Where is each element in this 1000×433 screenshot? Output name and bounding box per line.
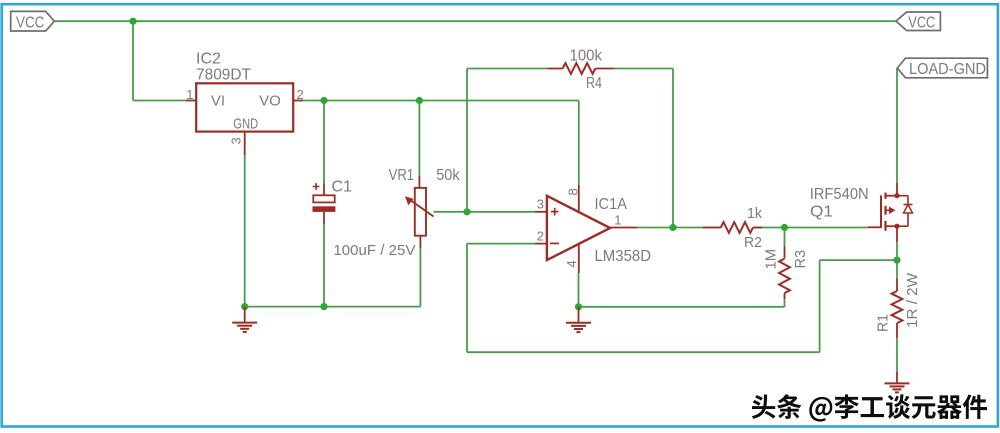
svg-text:LOAD-GND: LOAD-GND bbox=[909, 61, 986, 78]
supply flag VCC right bbox=[896, 12, 940, 31]
wire VR1 bottom to ground rail bbox=[419, 248, 421, 307]
junction VCC rail bbox=[129, 18, 136, 25]
svg-text:R2: R2 bbox=[744, 234, 762, 251]
wire LOAD-GND drop to Q1 drain bbox=[896, 68, 898, 183]
pin 2 inverting bbox=[535, 243, 547, 245]
wire Q1 source to R1 bbox=[896, 242, 898, 278]
svg-text:1: 1 bbox=[186, 87, 193, 102]
svg-text:50k: 50k bbox=[436, 167, 460, 184]
junction op-amp ground node bbox=[575, 303, 582, 310]
ground symbol (R1) bbox=[896, 372, 898, 383]
junction gate / R3 node bbox=[781, 224, 788, 231]
wire left ground rail bbox=[245, 306, 421, 308]
svg-text:R3: R3 bbox=[792, 250, 809, 269]
svg-text:VO: VO bbox=[259, 93, 281, 110]
wire R3 bottom to ground node bbox=[784, 299, 786, 307]
junction source sense node bbox=[893, 257, 900, 264]
pin 4 V- bbox=[578, 244, 580, 273]
op-amp plus marker bbox=[551, 211, 559, 213]
wire C1 bottom to ground rail bbox=[323, 224, 325, 307]
svg-text:100uF / 25V: 100uF / 25V bbox=[333, 242, 415, 259]
svg-text:1: 1 bbox=[614, 213, 621, 228]
svg-text:4: 4 bbox=[564, 260, 579, 267]
svg-text:3: 3 bbox=[537, 197, 544, 212]
Q1 body diode bbox=[897, 195, 908, 197]
op-amp minus marker bbox=[550, 242, 559, 244]
Q1 drain connection bbox=[886, 195, 898, 197]
wire VR1 top branch bbox=[418, 101, 420, 177]
junction output feedback node bbox=[669, 224, 676, 231]
wire R1 bottom to ground bbox=[896, 338, 898, 372]
Q1 gate pin bbox=[868, 226, 881, 228]
junction VO rail at VR1 bbox=[416, 97, 423, 104]
svg-text:R1: R1 bbox=[875, 314, 892, 332]
pin 1 VI bbox=[186, 100, 196, 102]
wire VO rail from IC2 to op-amp V+ bbox=[303, 100, 579, 102]
resistor R2 bbox=[703, 227, 721, 229]
net flag LOAD-GND bbox=[897, 58, 987, 78]
svg-text:LM358D: LM358D bbox=[595, 248, 652, 265]
wire inverting input to current sense bbox=[467, 243, 535, 245]
pin 3 non-inverting bbox=[535, 211, 547, 213]
svg-text:VI: VI bbox=[211, 93, 225, 110]
watermark 头条 @李工谈元器件 bbox=[752, 394, 987, 421]
junction ground rail at C1 bbox=[320, 303, 327, 310]
resistor R1 bbox=[896, 278, 898, 291]
pin 8 V+ bbox=[578, 185, 580, 212]
Q1 channel stubs bbox=[884, 193, 886, 199]
resistor R4 bbox=[547, 68, 562, 70]
svg-text:2: 2 bbox=[297, 87, 304, 102]
capacitor C1 (polarized) bbox=[323, 184, 325, 196]
supply flag VCC left bbox=[11, 11, 55, 31]
svg-text:3: 3 bbox=[229, 137, 244, 144]
wire VCC top rail bbox=[54, 20, 896, 22]
svg-text:IC1A: IC1A bbox=[595, 196, 628, 213]
wire op-amp output to R2 bbox=[637, 227, 721, 229]
svg-text:1R / 2W: 1R / 2W bbox=[904, 272, 921, 328]
svg-text:IC2: IC2 bbox=[196, 51, 221, 68]
wire R2 to Q1 gate bbox=[753, 227, 868, 229]
pin 3 GND bbox=[244, 132, 246, 155]
VR1 wiper arrow bbox=[410, 200, 434, 217]
svg-text:C1: C1 bbox=[332, 179, 353, 196]
svg-text:2: 2 bbox=[537, 229, 544, 244]
wire VCC drop to IC2 input bbox=[132, 21, 134, 100]
pin 2 VO bbox=[293, 100, 303, 102]
svg-text:VR1: VR1 bbox=[389, 167, 415, 184]
svg-text:8: 8 bbox=[566, 188, 581, 195]
ground symbol (op-amp) bbox=[578, 307, 580, 323]
pin 1 output bbox=[610, 227, 637, 229]
svg-text:Q1: Q1 bbox=[810, 204, 833, 221]
resistor R3 bbox=[784, 246, 786, 259]
potentiometer VR1 bbox=[418, 176, 420, 188]
svg-text:1k: 1k bbox=[747, 205, 762, 222]
svg-text:7809DT: 7809DT bbox=[196, 67, 251, 84]
Q1 substrate arrow bbox=[886, 209, 891, 211]
wire R3 top stub bbox=[784, 228, 786, 247]
svg-text:GND: GND bbox=[233, 116, 258, 133]
wire R4 left leg bbox=[466, 69, 468, 212]
svg-text:VCC: VCC bbox=[908, 14, 935, 31]
wire VR1 wiper to op-amp non-inverting input bbox=[434, 211, 536, 213]
svg-text:100k: 100k bbox=[570, 48, 603, 65]
wire op-amp V- pin drop bbox=[578, 273, 580, 307]
wire C1 top branch bbox=[323, 101, 325, 184]
junction non-inverting input node bbox=[463, 208, 470, 215]
junction VO rail at C1 bbox=[320, 97, 327, 104]
junction ground rail at IC2 bbox=[241, 303, 248, 310]
svg-text:1M: 1M bbox=[763, 249, 780, 270]
svg-text:IRF540N: IRF540N bbox=[810, 186, 869, 203]
wire IC2 GND pin drop bbox=[244, 155, 246, 307]
Q1 source connection bbox=[886, 225, 898, 227]
wire R4 right leg bbox=[615, 68, 673, 70]
ground symbol (IC2 / C1 rail) bbox=[244, 307, 246, 323]
C1 plus sign bbox=[313, 186, 320, 188]
svg-text:R4: R4 bbox=[586, 75, 602, 92]
svg-text:VCC: VCC bbox=[16, 14, 45, 31]
